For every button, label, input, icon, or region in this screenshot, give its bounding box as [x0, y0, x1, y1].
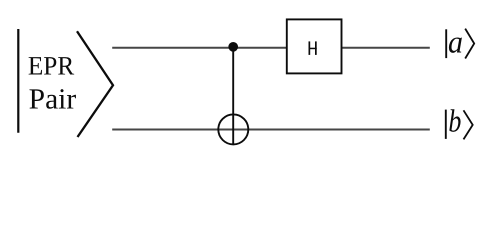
wire top (qubit 1)	[112, 47, 430, 49]
svg-text:Pair: Pair	[29, 83, 77, 115]
label Pair	[29, 83, 77, 115]
control dot	[228, 42, 238, 52]
wire bottom (qubit 2)	[112, 129, 430, 131]
ket |b>	[446, 102, 473, 139]
svg-text:EPR: EPR	[28, 50, 75, 80]
EPR source bar	[17, 29, 19, 133]
label EPR	[28, 50, 75, 80]
ket |a>	[446, 23, 474, 59]
svg-text:b: b	[448, 102, 461, 138]
svg-text:a: a	[448, 23, 463, 59]
EPR brace (angle bracket)	[77, 31, 113, 137]
wire vertical control line	[232, 47, 234, 144]
CNOT target X	[218, 114, 248, 144]
gate H letter	[309, 41, 317, 55]
gate H box	[287, 19, 342, 73]
